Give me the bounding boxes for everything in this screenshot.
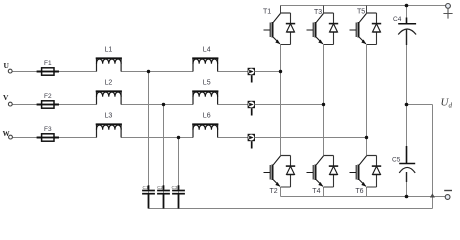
svg-text:C3: C3 (172, 185, 178, 190)
svg-text:T4: T4 (312, 188, 320, 195)
svg-text:T2: T2 (270, 188, 278, 195)
svg-text:F2: F2 (44, 93, 52, 100)
svg-text:T3: T3 (314, 9, 322, 16)
svg-text:L2: L2 (105, 79, 113, 86)
svg-text:F3: F3 (44, 126, 52, 133)
svg-text:L4: L4 (203, 46, 211, 53)
svg-text:L5: L5 (203, 79, 211, 86)
svg-text:C1: C1 (143, 185, 149, 190)
svg-text:T1: T1 (263, 9, 271, 16)
svg-text:L3: L3 (105, 112, 113, 119)
svg-text:C4: C4 (393, 16, 402, 23)
svg-text:V: V (3, 93, 9, 102)
svg-text:L6: L6 (203, 112, 211, 119)
svg-text:C2: C2 (157, 185, 163, 190)
svg-text:Ud: Ud (441, 97, 453, 110)
svg-text:W: W (3, 130, 10, 138)
svg-text:L1: L1 (105, 46, 113, 53)
svg-text:T5: T5 (357, 9, 365, 16)
svg-text:F1: F1 (44, 60, 52, 67)
svg-text:C5: C5 (392, 157, 401, 164)
svg-text:T6: T6 (355, 188, 363, 195)
svg-text:U: U (4, 61, 10, 70)
